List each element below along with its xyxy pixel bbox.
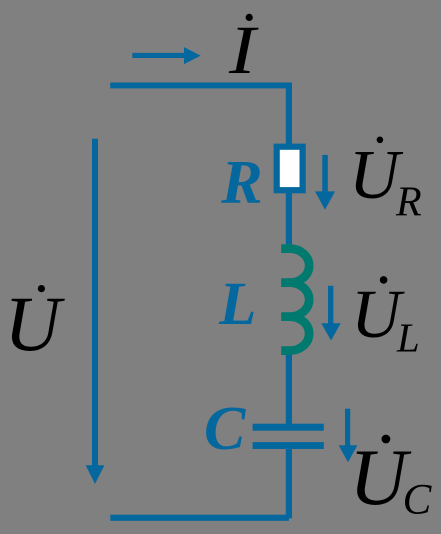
wire: inductor to capacitor <box>286 354 292 424</box>
svg-text:C: C <box>204 395 246 463</box>
resistor R body <box>277 147 303 191</box>
svg-text:U: U <box>4 280 65 367</box>
wire: bottom horizontal <box>110 515 289 521</box>
inductor L coil <box>281 249 309 351</box>
voltage arrow U (left) <box>86 139 105 484</box>
svg-text:L: L <box>218 271 256 338</box>
wire: capacitor to bottom <box>286 449 292 519</box>
dot over UC <box>382 435 391 444</box>
svg-text:R: R <box>395 180 422 226</box>
svg-text:L: L <box>396 315 420 361</box>
capacitor C top plate <box>253 424 324 431</box>
dot over UR <box>377 137 384 144</box>
svg-text:R: R <box>220 149 262 217</box>
wire: right vertical, top wire to resistor <box>286 83 292 146</box>
svg-text:I: I <box>228 13 259 89</box>
voltage arrow UC <box>339 409 358 463</box>
dot over I <box>246 14 253 21</box>
voltage arrow UL <box>321 286 340 341</box>
dot over U <box>38 285 45 292</box>
svg-text:C: C <box>403 477 433 524</box>
capacitor C bottom plate <box>253 442 324 449</box>
wire: top horizontal <box>110 83 292 89</box>
current arrow I <box>132 47 200 64</box>
voltage arrow UR <box>315 155 335 210</box>
dot over UL <box>380 276 388 284</box>
wire: resistor to inductor <box>286 193 292 245</box>
